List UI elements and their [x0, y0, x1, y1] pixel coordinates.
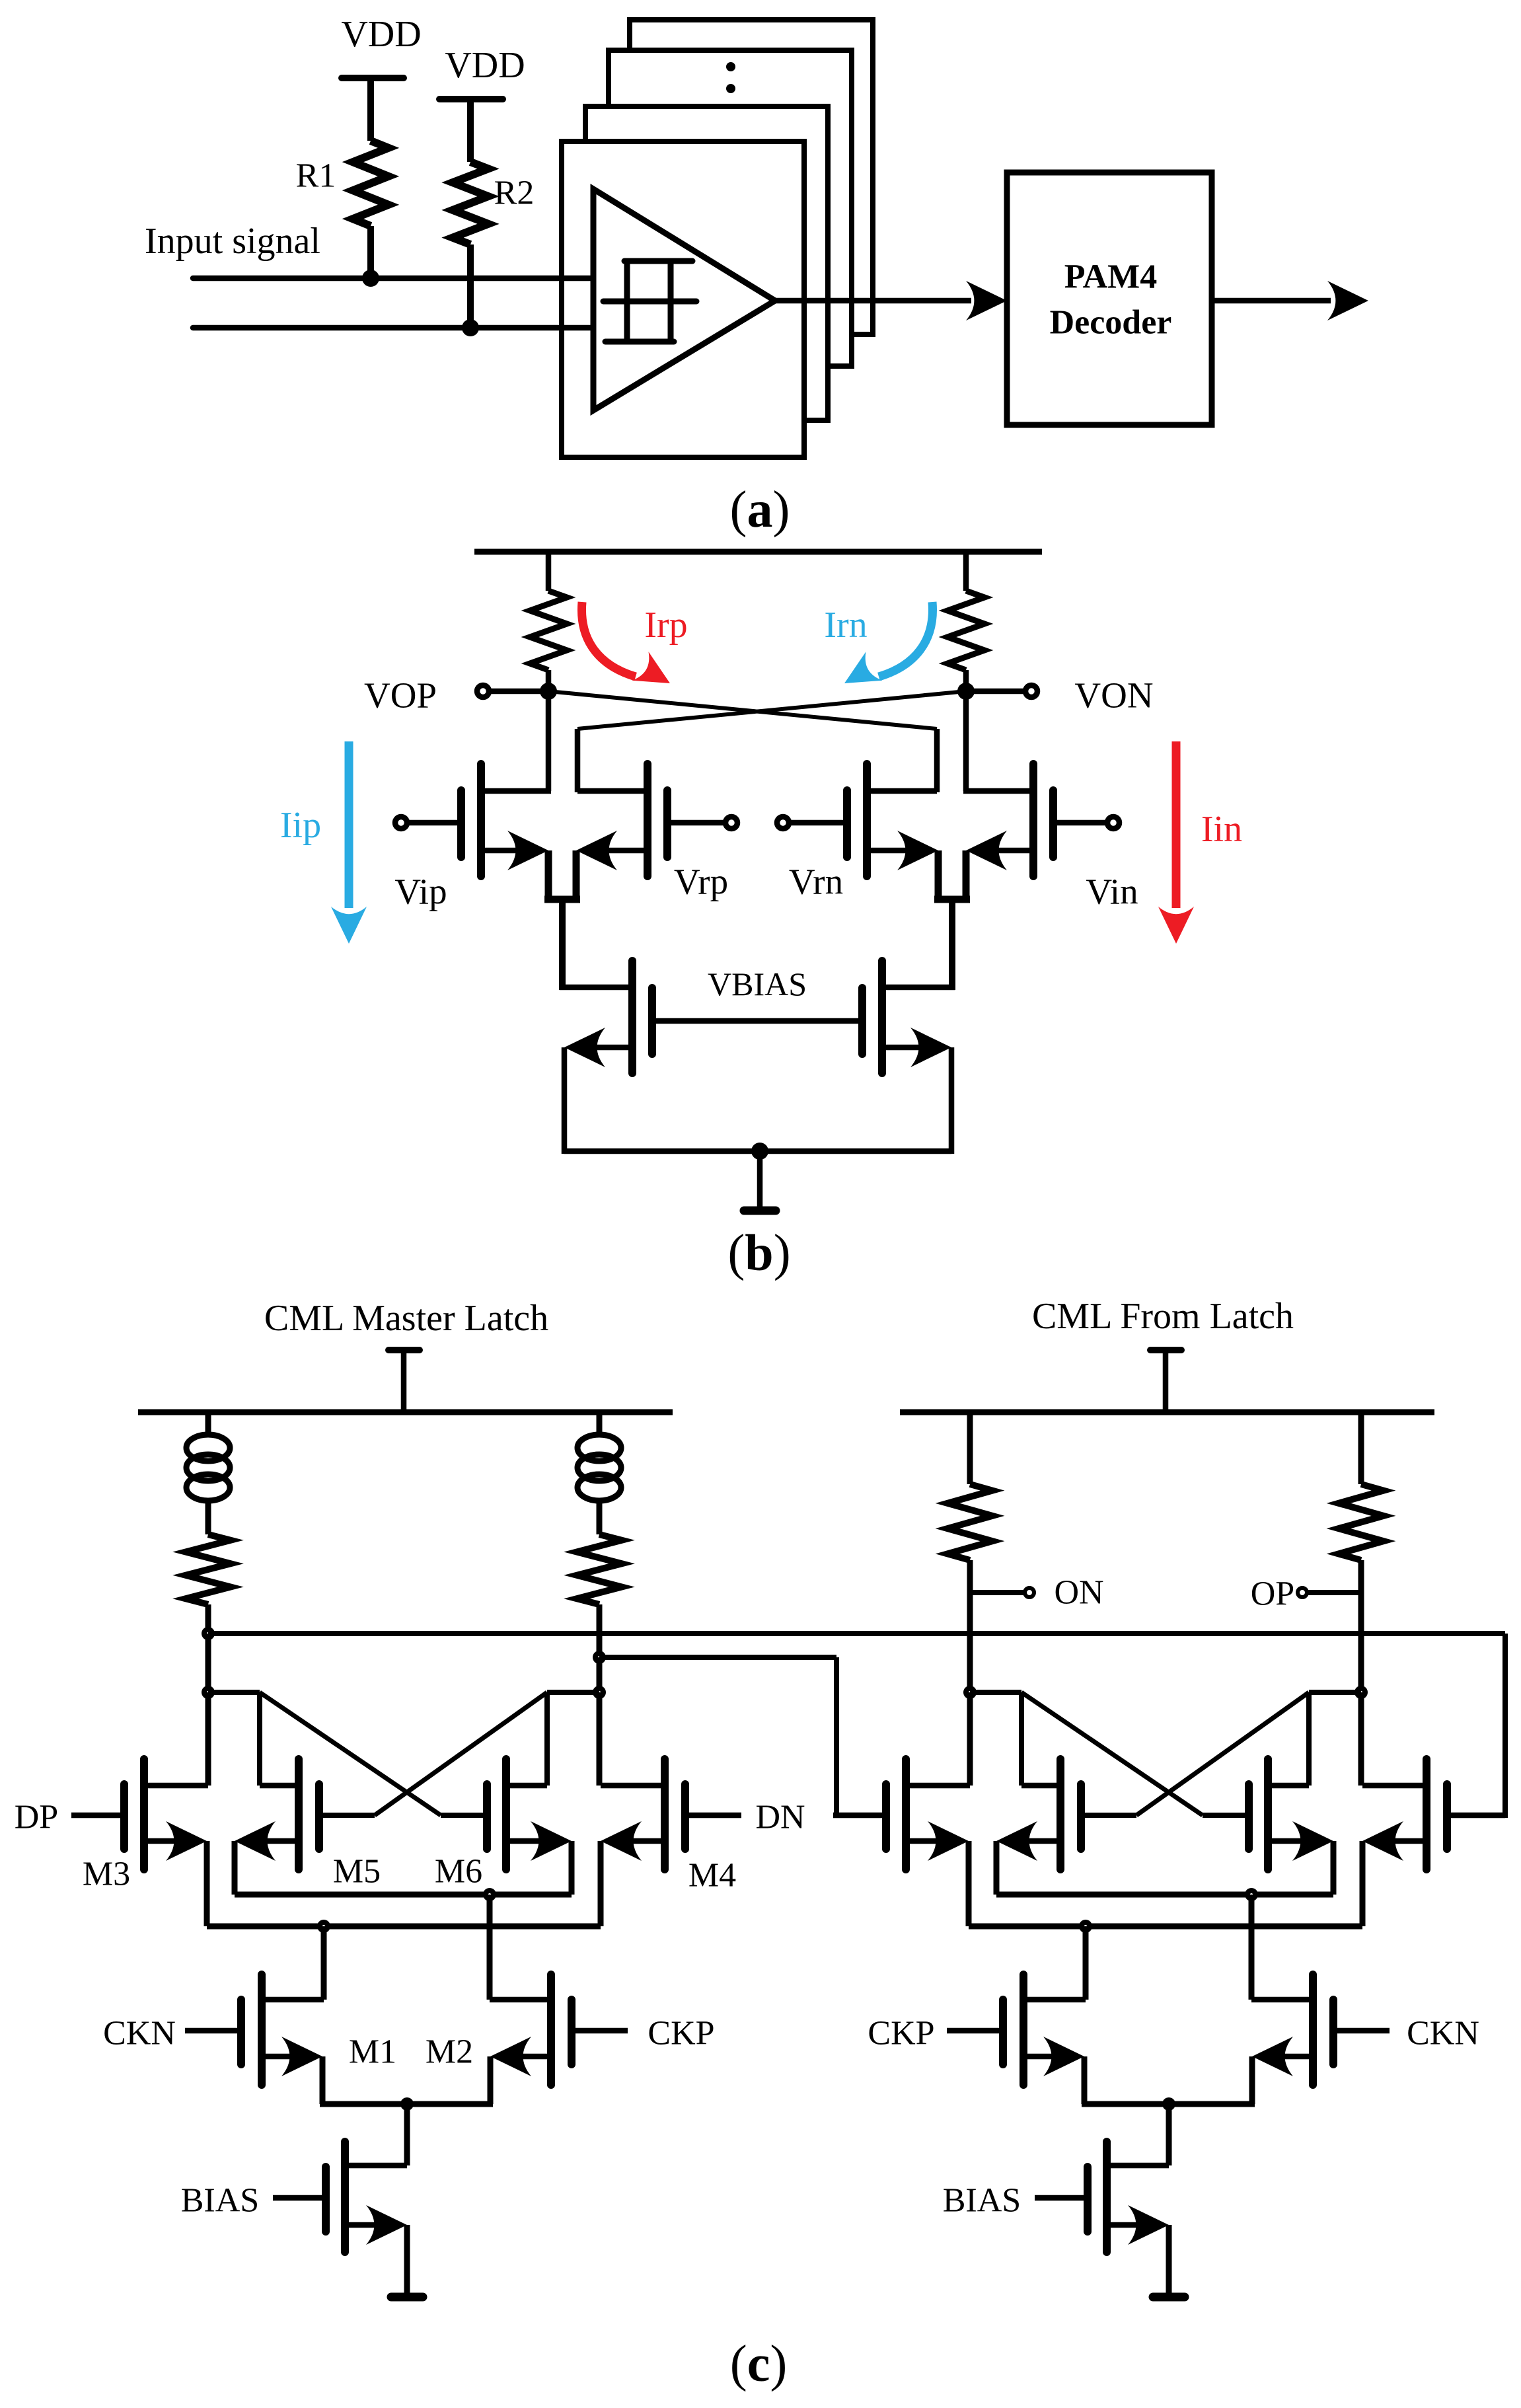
node VON — [957, 683, 975, 700]
transistor input- FET (slave) — [1362, 1759, 1505, 1869]
wire shared source cup (b left pair) — [544, 850, 580, 990]
label CKN (master) — [103, 2015, 176, 2052]
terminal ON circle — [1025, 1588, 1034, 1597]
svg-text:Iin: Iin — [1201, 809, 1242, 850]
ground (master) — [391, 2293, 423, 2302]
wire input+ line — [193, 276, 593, 282]
comparator triangle — [593, 189, 775, 410]
svg-text:CKN: CKN — [1407, 2015, 1479, 2052]
ellipsis dots (more slices) — [726, 62, 735, 93]
wire R6 to node OP — [1358, 1560, 1364, 1692]
label R1 — [296, 157, 336, 195]
transistor M-Vin (b outer right) — [963, 764, 1105, 876]
power rail (master) — [138, 1410, 673, 1415]
wire OP tap — [1308, 1590, 1361, 1595]
wire cross-couple right-to-left gate (master) — [323, 1692, 547, 1815]
transistor M3 (master) — [71, 1759, 208, 1869]
svg-text:(c): (c) — [730, 2335, 788, 2392]
svg-text:CKN: CKN — [103, 2015, 176, 2052]
wire VON terminal — [966, 689, 1025, 695]
wire rail to RL+ — [546, 549, 552, 591]
label Decoder — [1050, 304, 1172, 342]
wire clock-pair source cup (slave) — [1082, 2056, 1255, 2104]
current arrow Iin (red) — [1158, 741, 1194, 944]
wire cross-couple left-to-right gate (slave) — [1021, 1692, 1249, 1815]
resistor RL- (b right load) — [947, 591, 984, 670]
wire cross-pair tail bus (slave) — [996, 1892, 1333, 1898]
label VBIAS — [708, 965, 807, 1002]
svg-text:M6: M6 — [435, 1853, 482, 1891]
hysteresis symbol in comparator — [603, 261, 696, 342]
wire VDD to R1 — [367, 75, 374, 141]
wire RL+ to VOP node — [546, 670, 552, 691]
wire QP down — [597, 1657, 603, 1692]
power VDD tee (master) — [389, 1350, 420, 1415]
label M2 — [426, 2033, 473, 2071]
transistor cross-right FET (slave) — [1249, 1759, 1333, 1869]
transistor M4 (master) — [601, 1759, 685, 1869]
wire ON tap — [970, 1590, 1024, 1595]
label CML From Latch — [1032, 1296, 1294, 1337]
svg-text:M5: M5 — [333, 1853, 381, 1891]
node input-pair tail (master) — [317, 1920, 330, 1933]
wire VOP terminal — [490, 689, 548, 695]
label Iip (blue) — [280, 805, 321, 846]
transistor M-Vrn (b inner right) — [790, 764, 938, 876]
label Vip — [394, 872, 447, 912]
wire bias source to ground (slave) — [1166, 2225, 1172, 2296]
label M1 — [349, 2033, 396, 2071]
svg-text:DP: DP — [15, 1799, 58, 1836]
label Vin — [1086, 872, 1138, 912]
svg-text:Iip: Iip — [280, 805, 321, 846]
svg-text:(b): (b) — [727, 1224, 790, 1281]
terminal Vrp circle — [725, 817, 737, 829]
transistor clock-left FET (slave) — [947, 1975, 1086, 2085]
label DN — [755, 1799, 805, 1836]
node cross-pair tail (master) — [483, 1888, 496, 1901]
svg-text:M2: M2 — [426, 2033, 473, 2071]
label Input signal — [145, 221, 320, 262]
transistor M1 (master) — [185, 1975, 324, 2085]
svg-text:VON: VON — [1074, 675, 1153, 716]
wire right drain bus (slave) — [1309, 1692, 1361, 1786]
wire left drain bus (slave) — [970, 1692, 1021, 1786]
node clock tail (slave) — [1162, 2097, 1175, 2111]
ground (b) — [744, 1151, 776, 1211]
svg-text:VDD: VDD — [341, 14, 421, 55]
node cross-pair tail (slave) — [1245, 1888, 1258, 1901]
node clock tail (master) — [400, 2097, 414, 2111]
wire right drain down (slave) — [1358, 1692, 1364, 1786]
transistor input+ FET (slave) — [833, 1759, 970, 1869]
node tail (b) — [751, 1143, 768, 1160]
terminal VOP circle — [477, 685, 489, 697]
svg-text:CKP: CKP — [648, 2015, 714, 2052]
svg-text:R2: R2 — [494, 174, 535, 212]
arrowhead into PAM4 decoder — [966, 281, 1007, 320]
wire right drain down (master) — [597, 1692, 603, 1786]
label Irp (red) — [644, 605, 687, 646]
transistor M5 (master) — [235, 1759, 319, 1869]
wire decoder output — [1212, 298, 1331, 304]
svg-text:Vip: Vip — [394, 872, 447, 912]
svg-text:Input signal: Input signal — [145, 221, 320, 262]
wire cross-couple VON to left drain — [577, 691, 966, 792]
wire rail to RL- — [963, 549, 969, 591]
transistor M-Vrp (b inner left) — [576, 764, 724, 876]
terminal Vin circle — [1107, 817, 1119, 829]
resistor RL+ (b left load) — [530, 591, 567, 670]
wire cross-couple left-to-right gate (master) — [260, 1692, 487, 1815]
caption (c) — [730, 2335, 788, 2392]
svg-text:DN: DN — [755, 1799, 805, 1836]
svg-text:Vrn: Vrn — [789, 862, 843, 902]
wire RL- to VON node — [963, 670, 969, 691]
wire left drain down (master) — [205, 1692, 211, 1786]
label CKN (slave) — [1407, 2015, 1479, 2052]
wire rail to L1 — [205, 1410, 211, 1436]
wire source drop cross-right (slave) — [1331, 1841, 1337, 1895]
label Iin (red) — [1201, 809, 1242, 850]
label Vrp — [674, 862, 728, 902]
label OP — [1251, 1575, 1294, 1613]
svg-text:M4: M4 — [688, 1857, 736, 1895]
node right drain (master) — [593, 1686, 606, 1699]
wire input-pair tail bus (master) — [207, 1924, 601, 1930]
resistor R6 (slave right load) — [1339, 1484, 1384, 1560]
wire input- line — [193, 325, 593, 331]
node QN (master left output) — [202, 1627, 215, 1640]
resistor R2 — [453, 162, 488, 245]
transistor M2 (master) — [490, 1975, 628, 2085]
wire VBIAS gate line — [652, 1018, 862, 1024]
wire tail to clock-right drain (master) — [487, 1895, 493, 2000]
wire VON node down to M-Vin drain — [963, 691, 969, 791]
wire tail to clock-left drain (master) — [321, 1926, 327, 2000]
svg-text:M3: M3 — [83, 1856, 130, 1893]
svg-text:BIAS: BIAS — [181, 2182, 259, 2220]
svg-text:(a): (a) — [730, 480, 790, 538]
wire tail to clock-left drain (slave) — [1083, 1926, 1089, 2000]
comparator slice box 1 (front) — [562, 141, 804, 457]
wire source drop outer-right (slave) — [1360, 1841, 1366, 1926]
wire DN gate lead — [685, 1813, 741, 1819]
wire R3 to node QN — [205, 1604, 211, 1634]
label CKP (master) — [648, 2015, 714, 2052]
label ON — [1054, 1574, 1103, 1612]
wire tail node horizontal — [564, 1148, 951, 1154]
label BIAS (master) — [181, 2182, 259, 2220]
resistor R5 (slave left load) — [947, 1484, 992, 1560]
svg-text:Decoder: Decoder — [1050, 304, 1172, 342]
wire rail to R5 — [967, 1410, 973, 1484]
label DP — [15, 1799, 58, 1836]
wire bias source to ground (master) — [404, 2225, 410, 2296]
transistor M-bias-left (b) — [560, 961, 652, 1154]
transistor bias FET (master) — [273, 2142, 407, 2252]
label M6 — [435, 1853, 482, 1891]
arrowhead decoder output — [1327, 281, 1368, 320]
terminal VON circle — [1025, 685, 1037, 697]
svg-text:M1: M1 — [349, 2033, 396, 2071]
wire source drop outer-right (master) — [598, 1841, 604, 1926]
label CKP (slave) — [868, 2015, 934, 2052]
wire cross-couple VOP to right drain — [548, 691, 937, 792]
transistor bias FET (slave) — [1035, 2142, 1169, 2252]
terminal Vip circle — [395, 817, 407, 829]
wire QN down — [205, 1634, 211, 1692]
wire cross-pair tail bus (master) — [235, 1892, 572, 1898]
wire master QP to slave left gate (line2) — [599, 1657, 836, 1818]
svg-text:Irp: Irp — [644, 605, 687, 646]
label VOP — [364, 675, 437, 716]
node QP (master right output) — [593, 1651, 606, 1664]
svg-text:PAM4: PAM4 — [1064, 258, 1158, 296]
wire rail to L2 — [597, 1410, 603, 1436]
block PAM4 Decoder box — [1007, 172, 1212, 425]
inductor L1 — [186, 1435, 230, 1501]
terminal OP circle — [1298, 1588, 1307, 1597]
svg-text:BIAS: BIAS — [943, 2182, 1021, 2220]
label Vrn — [789, 862, 843, 902]
svg-text:Irn: Irn — [824, 605, 867, 646]
wire left drain bus (master) — [208, 1692, 260, 1786]
wire tail to bias FET (master) — [345, 2104, 407, 2165]
wire source drop cross-right (master) — [569, 1841, 575, 1895]
terminal Vrn circle — [777, 817, 789, 829]
wire input-pair tail bus (slave) — [969, 1924, 1362, 1930]
svg-text:CML Master Latch: CML Master Latch — [264, 1298, 548, 1339]
node input-pair tail (slave) — [1079, 1920, 1092, 1933]
svg-text:CKP: CKP — [868, 2015, 934, 2052]
caption (b) — [727, 1224, 790, 1281]
svg-text:VBIAS: VBIAS — [708, 965, 807, 1002]
comparator slice box 2 — [585, 106, 828, 420]
net VDD label (R1 supply) — [341, 14, 421, 55]
wire cross-couple right-to-left gate (slave) — [1085, 1692, 1309, 1815]
wire comparator output — [775, 298, 971, 304]
wire R4 to node QP — [597, 1604, 603, 1657]
transistor cross-left FET (slave) — [996, 1759, 1081, 1869]
svg-text:VOP: VOP — [364, 675, 437, 716]
node left drain (slave) — [963, 1686, 977, 1699]
power rail (slave) — [900, 1410, 1434, 1415]
node junction R1 / input+ — [362, 270, 379, 287]
wire source drop outer-left (master) — [204, 1841, 210, 1926]
svg-text:ON: ON — [1054, 1574, 1103, 1612]
caption (a) — [730, 480, 790, 538]
wire tail to bias FET (slave) — [1107, 2104, 1169, 2165]
wire right drain bus (master) — [547, 1692, 599, 1786]
wire L1 to R3 — [205, 1501, 211, 1534]
wire VOP node down to M-Vip drain — [546, 691, 552, 791]
node VOP — [540, 683, 557, 700]
transistor M-Vip (b outer left) — [409, 764, 551, 876]
wire source drop outer-left (slave) — [966, 1841, 972, 1926]
node junction R2 / input- — [462, 319, 479, 336]
label M4 — [688, 1857, 736, 1895]
label Irn (blue) — [824, 605, 867, 646]
current arrow Irn (blue arc) — [844, 602, 933, 683]
label M5 — [333, 1853, 381, 1891]
transistor M-bias-right (b) — [862, 961, 955, 1154]
resistor R4 (master right load) — [577, 1534, 622, 1604]
label M3 — [83, 1856, 130, 1893]
wire source drop cross-left (slave) — [994, 1841, 1000, 1895]
node right drain (slave) — [1354, 1686, 1368, 1699]
wire R2 to input line — [467, 245, 474, 328]
svg-text:Vin: Vin — [1086, 872, 1138, 912]
label BIAS (slave) — [943, 2182, 1021, 2220]
node left drain (master) — [202, 1686, 215, 1699]
label PAM4 — [1064, 258, 1158, 296]
wire tail to clock-right drain (slave) — [1249, 1895, 1255, 2000]
label CML Master Latch — [264, 1298, 548, 1339]
svg-text:VDD: VDD — [445, 45, 525, 86]
current arrow Irp (red arc) — [581, 602, 670, 683]
transistor M6 (master) — [487, 1759, 572, 1869]
net VDD label (R2 supply) — [445, 45, 525, 86]
svg-text:OP: OP — [1251, 1575, 1294, 1613]
comparator slice box 4 (back) — [630, 20, 873, 334]
power VDD bar for R1 — [342, 75, 404, 81]
wire left drain down (slave) — [967, 1692, 973, 1786]
power rail (b) — [474, 549, 1042, 555]
wire R1 to input line — [367, 226, 374, 278]
wire rail to R6 — [1358, 1410, 1364, 1484]
svg-text:Vrp: Vrp — [674, 862, 728, 902]
transistor clock-right FET (slave) — [1251, 1975, 1390, 2085]
wire clock-pair source cup (master) — [320, 2056, 493, 2104]
power VDD tee (slave) — [1150, 1350, 1181, 1415]
wire source drop cross-left (master) — [232, 1841, 238, 1895]
wire master QN to slave right gate (line1) — [208, 1634, 1505, 1818]
ground (slave) — [1153, 2293, 1185, 2302]
comparator slice box 3 — [609, 50, 852, 366]
label VON — [1074, 675, 1153, 716]
resistor R3 (master left load) — [186, 1534, 231, 1604]
current arrow Iip (blue) — [331, 741, 367, 944]
wire L2 to R4 — [597, 1501, 603, 1534]
power VDD bar for R2 — [439, 96, 503, 102]
wire R5 to node ON — [967, 1560, 973, 1692]
svg-text:R1: R1 — [296, 157, 336, 195]
svg-text:CML From Latch: CML From Latch — [1032, 1296, 1294, 1337]
inductor L2 — [577, 1435, 621, 1501]
wire shared source cup (b right pair) — [934, 850, 970, 990]
label R2 — [494, 174, 535, 212]
resistor R1 — [353, 141, 389, 226]
wire VDD to R2 — [467, 96, 474, 162]
